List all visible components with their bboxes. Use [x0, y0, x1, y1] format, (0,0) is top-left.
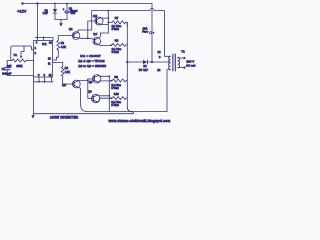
svg-text:Q3 to Q6 = 2N3055: Q3 to Q6 = 2N3055 — [78, 64, 106, 68]
svg-text:12: 12 — [157, 68, 161, 72]
svg-text:Q6: Q6 — [88, 90, 92, 94]
svg-text:250K: 250K — [16, 64, 22, 68]
svg-text:Q3: Q3 — [93, 14, 97, 18]
wire Q1 collector to bus B — [78, 11, 92, 33]
resistor R4 — [61, 66, 64, 77]
transformer T1 secondary — [178, 57, 180, 68]
wire IC ground bus — [34, 81, 54, 83]
svg-text:5 Watt: 5 Watt — [112, 28, 119, 31]
resistor R9 — [111, 79, 127, 82]
svg-text:0: 0 — [159, 55, 161, 59]
node +12V terminal — [21, 2, 23, 4]
svg-text:Q4: Q4 — [93, 32, 97, 36]
diode D2 — [53, 4, 57, 20]
resistor R7 — [108, 21, 127, 27]
wire pin4 stub — [37, 37, 39, 40]
transistor Q5 — [92, 75, 101, 83]
wire collector riser top — [107, 11, 109, 33]
svg-text:50V: 50V — [71, 12, 76, 15]
diode D1 — [127, 60, 152, 64]
wire pot wiper loop — [11, 46, 34, 61]
potentiometer P1 — [11, 46, 27, 62]
ground top — [59, 20, 63, 27]
transistor Q2 — [72, 80, 80, 88]
svg-text:IC1 = CD4047: IC1 = CD4047 — [80, 54, 101, 58]
svg-text:4.7K: 4.7K — [65, 70, 71, 74]
node diode tap dot — [126, 61, 128, 63]
resistor R10 — [111, 97, 127, 100]
node R9 left dot — [110, 80, 112, 82]
svg-text:BY 127: BY 127 — [139, 68, 149, 72]
svg-text:R9: R9 — [114, 75, 118, 79]
svg-text:Q5: Q5 — [89, 80, 93, 84]
svg-text:Q2: Q2 — [62, 83, 66, 87]
node pin8 junction — [38, 81, 40, 83]
svg-text:AC out: AC out — [186, 63, 195, 67]
resistor R3 — [57, 40, 60, 51]
wire bottom collector riser — [108, 76, 110, 111]
wire Q2 emitter to base bus — [78, 79, 88, 81]
wire Q1 emitter to Q3 Q4 bases — [80, 38, 94, 40]
wire bus to Q5 base — [88, 78, 93, 80]
svg-text:4.7K: 4.7K — [61, 45, 67, 49]
fuse F1 — [150, 32, 152, 34]
wire Q4 collector riser — [99, 33, 109, 38]
svg-text:9.1V: 9.1V — [43, 12, 48, 15]
svg-text:0.01mF: 0.01mF — [2, 71, 11, 75]
wire bottom base bus — [87, 79, 89, 98]
wire IC vdd pins bus — [35, 37, 53, 40]
svg-text:C1: C1 — [2, 67, 6, 71]
wire primary top stub — [165, 55, 171, 57]
node pin4 junction — [37, 37, 39, 39]
node R8 left dot — [110, 44, 112, 46]
transistor Q1 — [72, 32, 80, 40]
svg-text:Q1 & Q2 = TIP122: Q1 & Q2 = TIP122 — [78, 59, 105, 63]
node Q1 emitter junction — [87, 37, 89, 39]
node rail D2 dot — [54, 3, 56, 5]
wire base bus up to Q3 — [88, 21, 93, 38]
wire pin12 stub — [51, 77, 53, 82]
wire pin8 stub — [38, 77, 40, 82]
svg-text:www.skema-elektronik.blogspot.: www.skema-elektronik.blogspot.com — [109, 119, 171, 123]
node pin9 junction — [44, 81, 46, 83]
wire Q3 emitter to R7 — [101, 23, 109, 25]
node bottom bus dot — [87, 79, 89, 81]
wire Q6 collector — [98, 94, 110, 97]
wire R4 to Q2 base — [63, 77, 73, 84]
transistor Q6 — [91, 94, 100, 102]
node rail C2 dot — [66, 3, 68, 5]
svg-text:5 Watt: 5 Watt — [111, 104, 118, 107]
wire rail drop to IC supply — [37, 4, 39, 38]
wire pot left to C1 — [7, 61, 11, 68]
transformer core — [172, 54, 174, 71]
transistor Q4 — [93, 37, 101, 45]
node Q6 collector dot — [108, 95, 110, 97]
svg-text:+12V: +12V — [17, 8, 27, 13]
wire center tap — [152, 61, 170, 63]
wire pin9 stub — [44, 77, 46, 82]
node pin5 junction — [43, 37, 45, 39]
resistor R8 — [111, 43, 127, 46]
wire pin5 stub — [43, 37, 45, 40]
wire filter ground bus — [55, 19, 67, 21]
wire Q2 collector down to wire C — [78, 87, 87, 111]
node secondary bottom terminal — [183, 67, 185, 69]
svg-text:R4: R4 — [65, 66, 69, 70]
wire bus to Q6 base — [88, 97, 92, 99]
node R10 left dot — [110, 97, 112, 99]
svg-text:R7: R7 — [115, 16, 119, 20]
wire fuse line — [151, 4, 153, 32]
wire R3 to Q1 base — [58, 36, 72, 40]
wire hop over fuse line — [150, 8, 154, 10]
wire pin11 to R4 — [53, 62, 63, 66]
wire top +12V rail — [23, 3, 153, 5]
transistor Q3 — [93, 17, 103, 25]
svg-text:+: + — [63, 7, 65, 11]
node wire B dot — [107, 10, 109, 12]
svg-text:12: 12 — [158, 50, 162, 54]
op-amp IC1 CD4047 box — [34, 41, 53, 77]
svg-text:5 Watt: 5 Watt — [112, 51, 119, 54]
wire Q6 emitter to R10 — [98, 98, 112, 102]
transformer T1 primary — [169, 56, 171, 69]
svg-text:R10: R10 — [114, 92, 119, 96]
wire B to transformer top — [92, 10, 150, 12]
node secondary top terminal — [183, 57, 185, 59]
svg-text:IC1: IC1 — [42, 42, 47, 46]
node collector riser dot — [107, 17, 109, 19]
wire C1 to pin1 — [7, 75, 33, 77]
svg-text:T1: T1 — [181, 49, 185, 53]
wire C to transformer bottom — [87, 111, 168, 113]
capacitor C3 — [65, 4, 70, 20]
wire Q5 emitter to R9 — [99, 81, 112, 83]
node fuse bottom dot — [151, 61, 153, 63]
node junction on rail — [36, 2, 38, 4]
wire Q5 collector — [99, 75, 110, 76]
svg-text:R8: R8 — [115, 39, 119, 43]
node R7 left dot — [107, 21, 109, 23]
wire secondary bottom out — [178, 67, 184, 69]
svg-text:5 Watt: 5 Watt — [111, 87, 118, 90]
svg-text:Fuse: Fuse — [142, 30, 148, 34]
node Q5 collector dot — [108, 75, 110, 77]
wire ground rail — [34, 113, 134, 115]
svg-text:R3: R3 — [61, 41, 65, 45]
svg-text:P1: P1 — [14, 53, 18, 57]
wire Q4 emitter to R8 — [99, 44, 112, 47]
wire pin10 to R3 — [53, 51, 59, 61]
wire bus hop to ground rail — [127, 107, 133, 114]
svg-text:Q1: Q1 — [69, 27, 73, 31]
wire pot to pin2 — [27, 60, 34, 62]
wire right resistor bus — [126, 22, 128, 107]
capacitor C1 — [4, 68, 10, 76]
svg-text:100W INVERTER: 100W INVERTER — [50, 115, 79, 119]
wire Q3 collector — [101, 17, 109, 20]
ground bottom arrow — [31, 114, 34, 119]
wire secondary top out — [178, 57, 184, 59]
wire ground drop left — [33, 76, 35, 114]
